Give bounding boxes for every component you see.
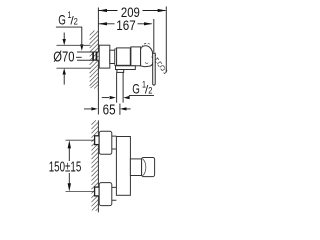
ring washer: [115, 49, 117, 65]
label G 1/2 (shower outlet, middle): [102, 80, 154, 100]
extension line 209 (tip of open lever): [165, 7, 167, 73]
right extension (pipe centre): [119, 104, 121, 115]
escutcheon flange (O70): [99, 45, 110, 68]
handle shaft (bottom view): [130, 159, 141, 176]
wall hatch (bottom view): [92, 120, 99, 210]
svg-text:150±15: 150±15: [49, 160, 82, 176]
outlet flange: [117, 70, 124, 73]
dimension 65: [84, 102, 131, 119]
lower connector: [112, 187, 117, 200]
lever (closed position, hanging down): [153, 53, 156, 85]
lower union escutcheon: [99, 183, 112, 206]
wall line (bottom view): [97, 120, 99, 212]
handle knob (bottom view): [142, 158, 155, 177]
knob inner arc: [143, 159, 146, 176]
wall hatch (side view): [90, 31, 99, 90]
svg-text:2: 2: [74, 16, 78, 26]
dimension 150+/-15 extension lines (union centres): [66, 140, 95, 191]
svg-text:2: 2: [148, 86, 152, 96]
upper union escutcheon: [99, 131, 112, 154]
upper union nut: [95, 136, 100, 145]
extension line 167 (closed lever): [153, 19, 155, 53]
cap inner tick: [145, 62, 148, 63]
lever open position (dashed diagonal): [152, 54, 167, 74]
neck piece: [110, 50, 115, 63]
svg-text:65: 65: [103, 102, 116, 119]
upper arrow: [63, 33, 65, 40]
mixer body (bottom view): [116, 137, 130, 196]
shower outlet pipe: [117, 72, 124, 102]
outlet bracket below body: [116, 66, 136, 70]
body segment 1: [117, 48, 131, 65]
lower arrow: [63, 74, 65, 85]
opposing arrow at pipe left edge: [102, 97, 109, 99]
cap / handle dome: [141, 46, 154, 67]
body segment 2 (cartridge housing): [131, 47, 141, 66]
dimension O70 (escutcheon): [53, 33, 90, 85]
dimension 167: [98, 18, 153, 53]
label G 1/2 (inlet thread, top left): [56, 10, 84, 51]
G1/2 thread detail on inlet: [93, 52, 96, 61]
svg-text:Ø70: Ø70: [53, 50, 74, 66]
svg-text:G: G: [132, 81, 140, 97]
wall line (side view, also extension for 209 / 167 / 65): [97, 8, 99, 115]
inlet pipe through wall: [77, 52, 99, 60]
dimension 150+/-15: [49, 140, 82, 191]
extension lines: [57, 45, 91, 68]
upper connector: [112, 136, 117, 149]
svg-text:G: G: [58, 11, 66, 27]
svg-text:167: 167: [116, 18, 136, 33]
lever open position arc (dashed): [142, 43, 150, 47]
lower union nut: [95, 187, 100, 196]
dimension 209: [98, 5, 166, 73]
